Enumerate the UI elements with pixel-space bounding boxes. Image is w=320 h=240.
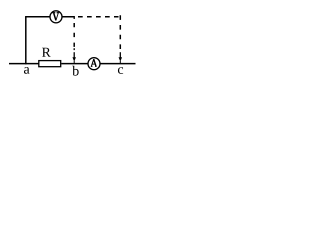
arrow head at node b [72,57,76,61]
label R [42,48,51,57]
wire bottom left segment [9,63,39,65]
wire from voltmeter to dashed junction [62,16,75,18]
solid tick down at end of voltmeter lead [73,16,75,19]
ammeter letter A [91,59,97,66]
voltmeter U-V circle [50,11,62,23]
node c label [118,67,123,74]
arrow shaft at node c [119,52,121,58]
wire bottom right segment [100,63,135,65]
arrow shaft at node b [73,52,75,58]
wire top from corner to voltmeter [25,16,50,18]
wire between resistor and ammeter [61,63,88,65]
arrow head at node c [119,57,123,61]
node a label [24,67,30,74]
dashed wire vertical to node c [119,15,121,49]
dashed wire vertical to node b [73,23,75,50]
voltmeter letter V [52,13,59,21]
dashed wire horizontal b to c [78,16,119,18]
wire left vertical [25,16,27,64]
ammeter U-A circle [88,58,100,70]
extra dash above arrow at node b [73,48,75,50]
resistor R box [39,61,61,67]
node b label [72,66,78,76]
